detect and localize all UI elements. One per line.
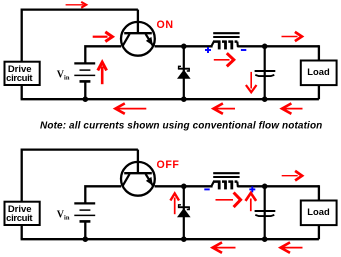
current arrow: right arrow top-right to load	[282, 32, 302, 41]
load box	[301, 61, 337, 86]
current arrow: left arrow bottom rail 3	[282, 103, 303, 113]
wire transistor base lead	[137, 150, 139, 174]
label + (inductor left polarity)	[205, 47, 211, 53]
wire drive box bottom to rail	[21, 85, 23, 99]
wire corner down to load box	[318, 45, 320, 60]
load box	[301, 201, 337, 226]
drive circuit box	[5, 202, 40, 225]
wire bottom rail	[21, 238, 319, 240]
label + (inductor right polarity)	[249, 186, 255, 192]
wire transistor right to inductor	[155, 45, 213, 47]
current arrow: left arrow bottom rail 2	[214, 103, 236, 113]
wire transistor right to inductor	[155, 185, 213, 187]
junction battery / bottom rail	[83, 96, 89, 102]
inductor L1 coil	[211, 41, 238, 49]
junction battery / bottom rail	[83, 236, 89, 242]
junction capacitor top	[262, 44, 268, 50]
current arrow: left arrow bottom rail 1	[213, 242, 236, 252]
inductor L1 core	[213, 32, 239, 34]
junction capacitor top	[262, 184, 268, 190]
capacitor C2	[255, 186, 276, 239]
wire battery top to transistor emitter-collector line	[85, 46, 121, 64]
junction diode top	[181, 184, 187, 190]
svg-text:Load: Load	[307, 206, 330, 217]
wire corner down to load box	[318, 185, 320, 200]
svg-text:OFF: OFF	[157, 159, 180, 171]
wire battery bottom lead	[84, 221, 86, 239]
junction diode bottom	[181, 96, 187, 102]
battery V_in	[74, 203, 95, 221]
diode D2 (schottky)	[177, 186, 191, 239]
diode D1 (schottky)	[177, 46, 191, 99]
current arrow: down arrow at capacitor	[246, 72, 257, 92]
current arrow: left arrow bottom rail 2	[281, 242, 303, 252]
wire load box bottom to rail	[318, 225, 320, 239]
current arrow: right arrow top-right to load	[282, 171, 302, 181]
current arrow: up arrow at battery	[98, 62, 107, 84]
current arrow: right arrow into transistor	[93, 32, 113, 42]
current arrow: right arrow under inductor	[214, 53, 234, 66]
wire drive box bottom to rail	[21, 225, 23, 239]
capacitor C1	[255, 46, 276, 99]
wire top-left loop (drive box top to transistor base)	[22, 10, 138, 62]
label - (inductor right polarity)	[241, 49, 246, 51]
battery V_in	[74, 63, 95, 81]
wire load box bottom to rail	[318, 85, 320, 99]
wire top-left loop (drive box top to transistor base)	[22, 150, 138, 202]
current arrow: up arrow at diode	[170, 193, 179, 214]
svg-text:circuit: circuit	[6, 213, 33, 224]
junction capacitor bottom	[262, 96, 268, 102]
wire transistor base lead	[137, 10, 139, 34]
wire inductor to top-right corner	[237, 185, 319, 187]
wire inductor to top-right corner	[237, 45, 319, 47]
svg-text:Note: all currents shown using: Note: all currents shown using conventio…	[40, 121, 322, 132]
current arrow: left arrow bottom rail 1	[115, 103, 146, 113]
wire battery top to transistor emitter-collector line	[85, 186, 121, 204]
drive circuit box	[5, 62, 40, 85]
junction diode top	[181, 44, 187, 50]
current arrow: right arrow under inductor	[216, 193, 241, 208]
inductor L2 core	[213, 172, 239, 174]
current arrow: up arrow at capacitor	[246, 193, 257, 211]
svg-text:Load: Load	[307, 66, 330, 77]
junction capacitor bottom	[262, 236, 268, 242]
svg-text:circuit: circuit	[6, 73, 33, 84]
current arrow: thin right arrow above top rail	[66, 2, 87, 8]
transistor Q1	[121, 22, 155, 56]
label - (inductor left polarity)	[204, 188, 209, 190]
junction diode bottom	[181, 236, 187, 242]
inductor L2 coil	[211, 181, 238, 189]
svg-text:ON: ON	[157, 19, 174, 31]
transistor Q2	[121, 162, 155, 196]
wire bottom rail	[21, 98, 319, 100]
wire battery bottom lead	[84, 81, 86, 99]
